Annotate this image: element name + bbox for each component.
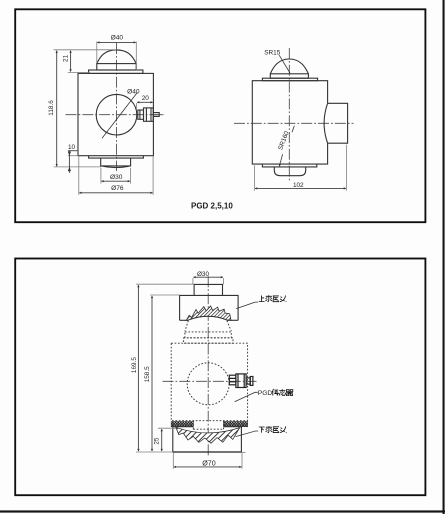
dim 10 arrow top xyxy=(68,152,71,156)
horizontal centerline right view xyxy=(234,122,354,124)
SR160 leader bottom segment xyxy=(279,154,282,166)
dim 20 ext xyxy=(136,103,138,109)
svg-text:10: 10 xyxy=(68,144,76,151)
connector pin centerline xyxy=(154,114,164,116)
boss sphere line xyxy=(101,166,131,168)
flange right view xyxy=(262,164,316,167)
dim 21 line xyxy=(70,51,72,72)
upper head block xyxy=(180,295,239,320)
svg-text:Ø70: Ø70 xyxy=(202,459,215,467)
svg-text:Ø76: Ø76 xyxy=(111,185,124,192)
washer plate top xyxy=(89,70,143,73)
upper head bottom left segment xyxy=(180,319,189,321)
sensor dome arc solid xyxy=(189,316,227,320)
shim plate checkered right xyxy=(224,422,248,427)
body cylinder left view xyxy=(78,73,153,155)
svg-text:169.5: 169.5 xyxy=(131,357,138,373)
connector bottom view plate xyxy=(250,377,253,386)
connector inner line C xyxy=(150,108,152,121)
bottom flange band xyxy=(89,156,144,158)
dashed dome flank right xyxy=(227,321,231,332)
svg-text:118.6: 118.6 xyxy=(48,100,55,116)
ext line boss bottom level xyxy=(54,166,101,168)
connector pin xyxy=(153,113,159,117)
top stem xyxy=(194,284,222,295)
dashed bore circle xyxy=(187,363,229,405)
dome base ring xyxy=(97,64,136,70)
label upper head leader xyxy=(236,302,258,309)
dim 10 tick xyxy=(68,150,77,152)
dim 118.6 line xyxy=(56,51,58,167)
vertical centerline bottom view xyxy=(207,276,209,455)
svg-text:Ø40: Ø40 xyxy=(127,89,140,96)
dim 102 line xyxy=(255,187,346,189)
bottom sphere boss right view xyxy=(274,167,305,176)
dim Ø30 line xyxy=(101,180,129,182)
dashed dome flank left xyxy=(185,321,188,332)
body right view xyxy=(252,81,327,164)
bore circle Ø40 xyxy=(96,94,137,135)
dashed body xyxy=(171,343,247,421)
svg-text:SR15: SR15 xyxy=(264,50,280,57)
top panel frame xyxy=(15,9,425,222)
dim 25 tick xyxy=(158,427,176,429)
horizontal centerline left view xyxy=(66,114,162,116)
SR15 leader xyxy=(279,55,290,73)
dim 10 arrow bottom xyxy=(68,167,71,171)
dome cap left view xyxy=(97,50,136,64)
baseline extension left xyxy=(136,451,173,453)
upper section crescent hatch xyxy=(186,306,231,320)
dim 169.5 line xyxy=(137,285,139,451)
baseline extension right xyxy=(241,452,245,454)
svg-text:PGD: PGD xyxy=(258,390,273,397)
dashed dome ring xyxy=(185,332,231,338)
dome ring right view xyxy=(270,74,308,78)
ext line washer top level xyxy=(68,71,90,73)
lower section hatched crescent xyxy=(176,427,240,443)
ext line dome top level xyxy=(54,49,117,51)
dim Ø70 line xyxy=(174,466,242,468)
svg-text:SR160: SR160 xyxy=(277,130,291,151)
svg-text:102: 102 xyxy=(293,182,304,189)
svg-text:Ø30: Ø30 xyxy=(197,271,210,278)
dashed bottom boss bottom xyxy=(193,428,223,430)
dim 102 ext lines xyxy=(254,165,256,190)
svg-text:Ø40: Ø40 xyxy=(111,35,124,42)
dim Ø40 top extension left xyxy=(96,41,98,63)
svg-text:20: 20 xyxy=(142,95,150,102)
dim Ø76 ext lines xyxy=(78,156,80,195)
dome cap right view xyxy=(270,59,308,74)
bottom boss xyxy=(101,158,131,166)
connector bottom view block A xyxy=(229,375,236,385)
outer scan border bottom xyxy=(0,510,445,512)
lower head bottom line xyxy=(173,451,242,453)
dashed bottom boss right xyxy=(223,421,225,430)
upper head bottom right segment xyxy=(227,319,238,321)
connector cylinder intersection arc xyxy=(324,103,328,143)
connector bottom view stem xyxy=(246,378,250,384)
label sensor leader xyxy=(235,392,258,401)
dim Ø70 ext lines xyxy=(172,453,174,469)
dim 25 line xyxy=(161,429,163,451)
SR160 leader top segment xyxy=(292,126,294,133)
dim Ø30 bottom panel line xyxy=(193,276,223,278)
svg-text:Ø30: Ø30 xyxy=(110,174,123,181)
vertical centerline left view xyxy=(116,43,118,171)
connector inner line A xyxy=(139,110,141,119)
ext block top level xyxy=(150,294,179,296)
shim plate checkered left xyxy=(171,422,193,427)
ext stem top level xyxy=(136,283,194,285)
dim 10 vertical line xyxy=(68,151,70,173)
connector side block xyxy=(328,103,348,143)
connector block small xyxy=(138,110,144,119)
dashed bottom boss left xyxy=(192,421,194,430)
connector inner line B xyxy=(145,108,147,121)
label lower head leader xyxy=(236,431,259,437)
svg-text:21: 21 xyxy=(63,54,70,62)
label upper head text 上承压头 xyxy=(259,295,287,302)
circle diagonal leader xyxy=(102,92,137,138)
dim Ø30 ext lines xyxy=(100,168,102,184)
connector block A inner lines xyxy=(229,378,236,381)
dim Ø40 top extension right xyxy=(135,41,137,70)
washer right view xyxy=(262,78,317,81)
dim 158.5 line xyxy=(151,296,153,451)
svg-text:PGD 2,5,10: PGD 2,5,10 xyxy=(191,202,233,211)
connector block main xyxy=(144,108,154,121)
dashed washer xyxy=(184,338,233,343)
dim 20 line xyxy=(137,101,153,103)
horizontal centerline bottom view xyxy=(163,380,257,382)
svg-text:158.5: 158.5 xyxy=(144,366,151,382)
vertical centerline right view xyxy=(288,48,290,181)
connector bottom view block B xyxy=(236,374,246,388)
connector block B inner lines xyxy=(238,374,244,388)
label lower head text 下承压头 xyxy=(259,426,287,433)
dim Ø30 bottom panel ext xyxy=(192,278,194,284)
lower head outline xyxy=(173,427,242,452)
dim Ø40 top line xyxy=(97,41,136,43)
ext body bottom level left xyxy=(68,155,78,157)
svg-text:25: 25 xyxy=(154,437,161,445)
bottom panel frame xyxy=(15,259,425,496)
outer scan border right xyxy=(443,0,445,514)
dim Ø76 line xyxy=(79,192,152,194)
